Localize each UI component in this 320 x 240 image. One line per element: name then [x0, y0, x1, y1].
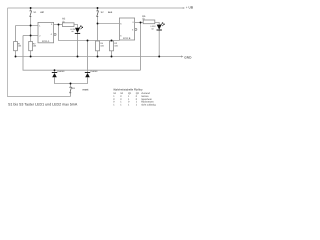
svg-text:ein: ein [40, 11, 44, 14]
svg-text:Wahrheitstabelle Flipflop: Wahrheitstabelle Flipflop [113, 89, 143, 92]
svg-text:GND: GND [184, 55, 192, 59]
svg-text:nicht zulässig: nicht zulässig [141, 104, 156, 107]
svg-text:1N4148: 1N4148 [57, 70, 65, 73]
svg-text:+ UB: + UB [186, 5, 193, 9]
svg-text:aus: aus [108, 11, 113, 14]
svg-text:4011 A: 4011 A [42, 40, 50, 43]
svg-text:1N4148: 1N4148 [90, 70, 98, 73]
svg-text:4011 B: 4011 B [123, 37, 131, 40]
svg-text:reset: reset [82, 88, 88, 91]
svg-text:S1 bis S3 Taster LED1 und LED2: S1 bis S3 Taster LED1 und LED2 max 5mA [8, 103, 78, 107]
